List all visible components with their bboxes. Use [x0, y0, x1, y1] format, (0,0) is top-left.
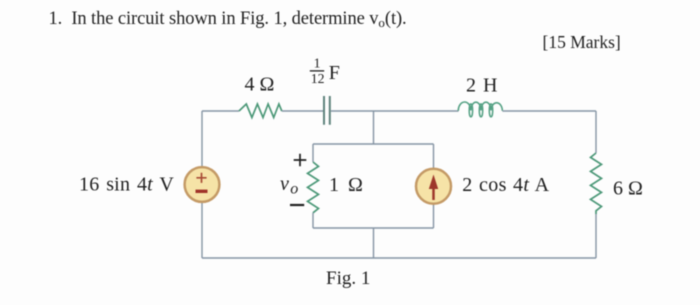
inductor L 2H loop 3	[489, 104, 492, 117]
svg-text:F: F	[329, 62, 340, 84]
wire: top rail between resistor and capacitor	[282, 110, 323, 112]
wire: bottom stub from inner box to bottom rail	[373, 228, 375, 258]
svg-text:1: 1	[314, 56, 321, 71]
svg-text:16 sin 4t V: 16 sin 4t V	[79, 174, 174, 196]
svg-text:12: 12	[311, 71, 325, 86]
plus sign above vo	[294, 154, 307, 167]
capacitor C 1/12F plates	[324, 96, 330, 125]
wire: inner box top	[313, 143, 434, 145]
wire: outer left vertical (below voltage source)	[201, 202, 203, 258]
minus sign below vo	[290, 204, 304, 206]
svg-text:2 cos 4t A: 2 cos 4t A	[462, 174, 549, 196]
resistor R 6ohm zigzag	[591, 153, 602, 214]
wire: top rail right of inductor	[502, 110, 596, 112]
marks label	[543, 32, 621, 53]
wire: top rail between capacitor and inductor	[331, 110, 459, 112]
resistor R 4ohm zigzag	[239, 104, 282, 118]
wire: outer right vertical below 6ohm	[595, 214, 597, 258]
wire: inner box left above 1ohm	[312, 144, 314, 162]
svg-text:1 Ω: 1 Ω	[329, 174, 363, 196]
svg-text:6 Ω: 6 Ω	[613, 178, 643, 200]
wire: inner box right below current source	[433, 204, 435, 228]
wire: outer left vertical (top half above voltage source)	[201, 111, 203, 167]
inductor L 2H loop 1	[469, 104, 472, 117]
wire: middle stub from top rail to inner box	[373, 111, 375, 144]
svg-text:4 Ω: 4 Ω	[245, 74, 275, 96]
current source arrow	[432, 186, 435, 200]
wire: outer right vertical above 6ohm	[595, 111, 597, 153]
svg-text:2H: 2H	[466, 75, 497, 97]
wire: bottom rail	[202, 257, 596, 259]
inductor L 2H loop 2	[479, 104, 482, 117]
wire: inner box bottom	[313, 227, 434, 229]
svg-text:vo: vo	[280, 173, 298, 197]
inductor L 2H coil humps	[458, 102, 502, 111]
svg-text:Fig. 1: Fig. 1	[326, 268, 370, 289]
label 1/12 F fraction	[310, 56, 340, 87]
wire: inner box left below 1ohm	[312, 213, 314, 228]
problem title text	[49, 9, 407, 31]
voltage source minus bar	[196, 190, 208, 193]
voltage source V1 circle	[185, 167, 220, 202]
wire: top rail left segment	[202, 110, 239, 112]
wire: inner box right above current source	[433, 144, 435, 169]
current source I1 circle	[416, 169, 451, 204]
voltage source plus sign	[196, 173, 206, 183]
resistor R 1ohm zigzag	[308, 162, 319, 213]
